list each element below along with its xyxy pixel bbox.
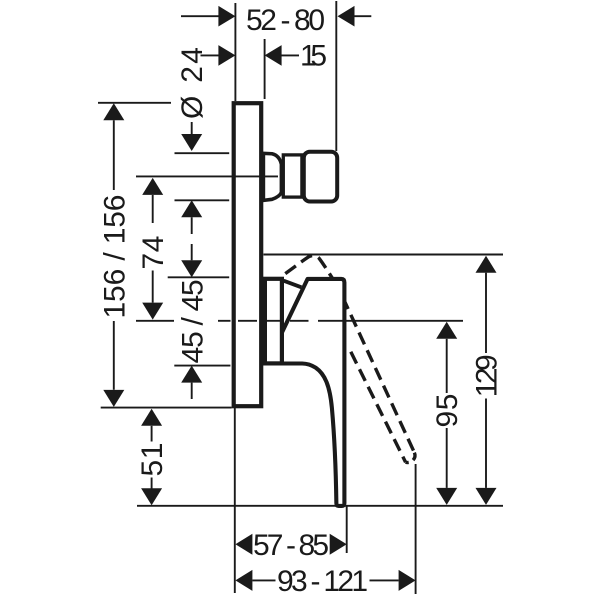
- svg-text:57 - 85: 57 - 85: [253, 529, 329, 562]
- svg-text:45 / 45: 45 / 45: [177, 279, 210, 363]
- valve sleeve: [265, 279, 282, 364]
- dimension 15: [201, 40, 328, 73]
- extension line: sleeve bottom: [174, 365, 230, 367]
- dimension 45/45: [177, 244, 210, 399]
- extension line: plate bottom: [101, 407, 232, 409]
- extension line: handle tip: [346, 507, 348, 554]
- dimension 95: [431, 322, 464, 505]
- dimension 93-121: [235, 565, 415, 598]
- svg-text:95: 95: [431, 394, 464, 428]
- baseline: [137, 505, 503, 507]
- dimension 57-85: [235, 529, 346, 562]
- extension line: plate front face (top): [234, 3, 236, 101]
- outlet nut: [304, 152, 337, 202]
- svg-text:74: 74: [137, 236, 170, 270]
- escutcheon plate: [234, 103, 262, 406]
- extension line: plate front (bottom): [234, 408, 236, 593]
- dimension 74: [137, 178, 170, 320]
- dimension Ø24: [176, 47, 209, 234]
- handle (solid): [282, 279, 345, 506]
- svg-text:93 - 121: 93 - 121: [277, 565, 368, 598]
- extension line: nut front face: [335, 1, 337, 151]
- handle lever alternate position (dashed): [285, 256, 415, 463]
- extension line: sleeve top: [168, 276, 230, 278]
- dimension 52-80: [181, 4, 371, 37]
- handle centerline: [136, 320, 344, 322]
- outlet cylinder: [283, 155, 302, 197]
- extension line: 15 right: [264, 39, 266, 99]
- svg-text:15: 15: [300, 40, 327, 73]
- dimension 129: [471, 256, 504, 505]
- dimension 51: [136, 409, 169, 506]
- svg-text:51: 51: [136, 443, 169, 477]
- extension line: dashed lever top (129 top): [264, 254, 504, 256]
- extension line: dashed lever tip: [415, 464, 417, 594]
- outlet stub cone: [263, 153, 281, 200]
- extension line: handle axis (95 top): [346, 320, 463, 322]
- extension lines: outlet stub top/bottom: [175, 153, 230, 200]
- svg-text:52 - 80: 52 - 80: [246, 4, 325, 37]
- outlet centerline: [136, 175, 278, 177]
- dimension 156/156: [98, 103, 171, 407]
- svg-text:Ø 24: Ø 24: [176, 47, 209, 119]
- handle hub facet line: [284, 281, 302, 288]
- svg-text:129: 129: [471, 354, 504, 397]
- svg-text:156 / 156: 156 / 156: [98, 195, 131, 319]
